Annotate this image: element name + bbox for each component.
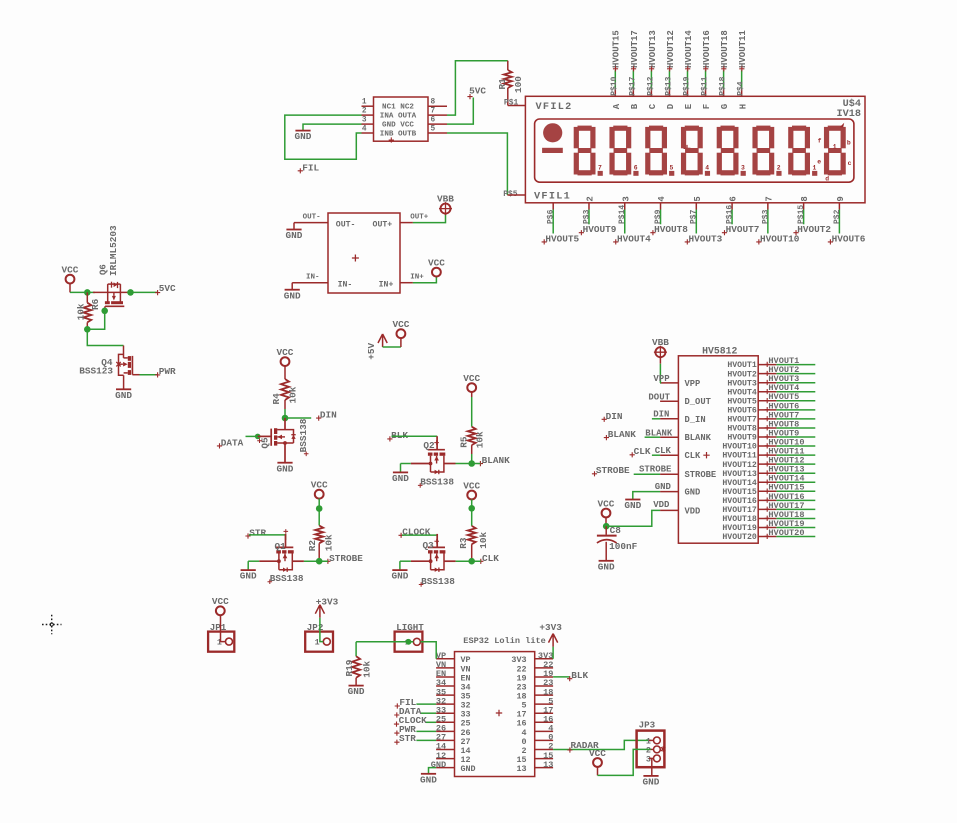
- svg-text:VFIL2: VFIL2: [536, 102, 573, 113]
- pin 8: [428, 105, 447, 107]
- wire Q3 drain to CLK junction: [456, 560, 481, 562]
- svg-text:5VC: 5VC: [159, 283, 176, 294]
- ground GND driver: [295, 130, 310, 132]
- svg-text:OUT+: OUT+: [373, 221, 393, 230]
- svg-text:HVOUT9: HVOUT9: [583, 224, 617, 235]
- wire JP3 pin3 to ground: [651, 758, 653, 776]
- svg-text:BSS138: BSS138: [298, 418, 309, 452]
- pin 6: [428, 123, 447, 125]
- supply VCC above R4: [281, 357, 290, 366]
- svg-text:HVOUT13: HVOUT13: [722, 470, 756, 479]
- svg-text:f: f: [818, 137, 822, 144]
- pin 2: [362, 114, 374, 116]
- svg-text:GND: GND: [286, 230, 303, 241]
- ground GND Q5: [277, 462, 292, 464]
- origin crosshair: [42, 615, 62, 635]
- supply VBB above HV5812: [655, 347, 665, 357]
- pin HVOUT1 wire and label: [758, 364, 776, 366]
- resistor R6 10k: [86, 292, 88, 302]
- wire Q2 drain to BLANK junction: [456, 463, 481, 465]
- ESP32 right pin 23: [535, 685, 553, 687]
- svg-text:4: 4: [362, 125, 367, 133]
- IC U2 HV5812: [678, 356, 758, 543]
- ESP32 left pin 32: [436, 703, 454, 705]
- svg-text:OUT+: OUT+: [410, 214, 429, 222]
- svg-text:c: c: [848, 160, 852, 167]
- pin 1: [362, 105, 374, 107]
- svg-text:D_OUT: D_OUT: [685, 397, 712, 407]
- svg-text:IRLML5203: IRLML5203: [108, 225, 119, 276]
- indicator dash segment: [542, 148, 563, 153]
- wire pin5 to display P$5: [447, 133, 507, 195]
- svg-text:GND: GND: [277, 463, 294, 474]
- indicator dot segment: [543, 123, 562, 142]
- svg-text:FIL: FIL: [302, 162, 319, 173]
- svg-text:P$19: P$19: [682, 76, 691, 95]
- wire pin6 to 5VC: [447, 98, 473, 125]
- ESP32 right pin 19: [535, 676, 553, 678]
- wire STR to Q1 gate: [249, 535, 286, 540]
- wire R6 bottom to Q4 drain: [87, 329, 123, 345]
- transistor Q6 IRLML5203 P-MOSFET: [93, 291, 131, 293]
- label PWR: [155, 372, 160, 377]
- svg-text:2: 2: [586, 196, 596, 201]
- JP3 pin 1: [654, 737, 661, 744]
- label DATA at ESP32: [394, 712, 399, 717]
- ESP32 left pin 35: [436, 694, 454, 696]
- svg-text:HVOUT5: HVOUT5: [545, 233, 579, 244]
- svg-text:VDD: VDD: [685, 506, 701, 516]
- wire R1 to display P$1: [508, 105, 526, 107]
- svg-text:F: F: [702, 104, 712, 109]
- wire ESP32 GND to ground: [429, 768, 437, 774]
- wire BLANK stub: [645, 436, 661, 438]
- pin D_OUT of HV5812: [660, 400, 678, 402]
- svg-text:IN+: IN+: [410, 274, 424, 282]
- svg-text:GND: GND: [348, 686, 365, 697]
- part origin cross U$4: [684, 145, 691, 152]
- svg-text:Q2: Q2: [423, 440, 435, 451]
- ESP32 right pin 4: [535, 730, 553, 732]
- wire net FIL pin2 loop: [285, 115, 362, 159]
- svg-text:NC1 NC2: NC1 NC2: [382, 104, 414, 112]
- svg-text:HVOUT7: HVOUT7: [727, 416, 757, 425]
- junction LIGHT pin: [406, 639, 412, 645]
- pin GND of HV5812: [660, 491, 678, 493]
- decimal point 7 with label 1: [812, 171, 817, 176]
- supply VBB: [441, 204, 451, 214]
- svg-text:ESP32 Lolin lite: ESP32 Lolin lite: [463, 636, 546, 646]
- svg-text:CLK: CLK: [634, 446, 651, 457]
- svg-text:GND: GND: [461, 764, 476, 774]
- svg-text:HVOUT3: HVOUT3: [727, 379, 757, 388]
- ground GND IN-: [285, 289, 300, 291]
- svg-text:13: 13: [516, 764, 526, 774]
- wire VCC to R2: [318, 499, 320, 509]
- svg-text:b: b: [847, 139, 851, 146]
- display digit 2: [613, 126, 627, 131]
- svg-text:Q1: Q1: [275, 541, 287, 552]
- ESP32 left pin 33: [436, 712, 454, 714]
- svg-text:GND: GND: [240, 571, 257, 582]
- supply +5V arrow: [378, 334, 387, 347]
- svg-text:HVOUT16: HVOUT16: [722, 497, 756, 506]
- svg-text:BLK: BLK: [391, 430, 408, 441]
- pin HVOUT19 wire and label: [758, 527, 776, 529]
- pin HVOUT7 wire and label: [758, 418, 776, 420]
- ESP32 left pin 27: [436, 739, 454, 741]
- label STR: [245, 533, 250, 538]
- wire pin7 to R1: [447, 61, 508, 115]
- label CLK net: [630, 452, 635, 457]
- wire STROBE stub: [634, 473, 660, 475]
- svg-text:INB OUTB: INB OUTB: [380, 131, 417, 139]
- pin 5: [428, 132, 447, 134]
- wire BLK: [553, 676, 569, 678]
- svg-text:HVOUT17: HVOUT17: [630, 30, 640, 68]
- wire pin3 to ground: [303, 124, 362, 131]
- label DATA: [217, 443, 222, 448]
- junction Q6 gate: [101, 308, 108, 315]
- ESP32 left pin 14: [436, 749, 454, 751]
- svg-text:8: 8: [431, 99, 436, 107]
- svg-text:GND: GND: [284, 290, 301, 301]
- svg-text:H: H: [738, 104, 748, 109]
- svg-text:HVOUT12: HVOUT12: [666, 30, 676, 68]
- svg-text:5VC: 5VC: [469, 86, 486, 97]
- svg-text:R6: R6: [90, 298, 101, 310]
- svg-text:P$13: P$13: [664, 76, 673, 95]
- display digit 5: [721, 126, 735, 131]
- pin HVOUT14 wire and label: [758, 481, 776, 483]
- svg-text:JP3: JP3: [639, 719, 656, 730]
- supply VCC above R2: [315, 490, 324, 499]
- svg-text:IN-: IN-: [338, 281, 353, 290]
- display digit 6: [756, 126, 770, 131]
- pin CLK of HV5812: [660, 454, 678, 456]
- label FIL: [298, 168, 303, 173]
- svg-text:HVOUT17: HVOUT17: [722, 506, 756, 515]
- pin HVOUT10 wire and label: [758, 445, 776, 447]
- junction BLANK: [468, 460, 475, 467]
- junction R4/DIN/Q5: [282, 415, 289, 422]
- svg-text:HVOUT11: HVOUT11: [722, 452, 756, 461]
- svg-text:4: 4: [657, 196, 667, 202]
- wire Q4 source to ground: [123, 375, 125, 389]
- junction Q6 drain: [127, 289, 134, 296]
- svg-text:HVOUT1: HVOUT1: [727, 361, 757, 370]
- svg-text:A: A: [612, 103, 622, 109]
- svg-text:P$6: P$6: [547, 209, 556, 224]
- svg-text:BLANK: BLANK: [608, 429, 637, 440]
- label DIN: [316, 416, 321, 421]
- svg-text:P$14: P$14: [618, 205, 627, 224]
- wire DIN stub: [652, 418, 660, 420]
- svg-text:+3V3: +3V3: [316, 596, 339, 607]
- ESP32 right pin 16: [535, 721, 553, 723]
- display digit 4: [685, 126, 699, 131]
- ground GND Q1: [241, 569, 256, 571]
- svg-text:HVOUT12: HVOUT12: [722, 461, 756, 470]
- resistor R1 100: [507, 61, 509, 70]
- svg-text:8: 8: [800, 196, 810, 201]
- svg-text:CLK: CLK: [482, 553, 499, 564]
- wire +5V to VCC: [383, 346, 401, 348]
- label PWR at ESP32: [394, 731, 399, 736]
- svg-text:HVOUT18: HVOUT18: [722, 515, 756, 524]
- svg-text:DIN: DIN: [606, 411, 623, 422]
- svg-text:GND: GND: [598, 561, 615, 572]
- ESP32 right pin 5: [535, 703, 553, 705]
- svg-text:GND VCC: GND VCC: [382, 122, 414, 130]
- svg-text:1: 1: [362, 99, 367, 107]
- svg-text:CLOCK: CLOCK: [402, 527, 431, 538]
- svg-text:HVOUT20: HVOUT20: [722, 533, 756, 542]
- wire Q1 drain to STROBE junction: [304, 560, 328, 562]
- svg-text:DATA: DATA: [221, 437, 244, 448]
- label CLK: [478, 559, 483, 564]
- svg-text:B: B: [630, 103, 640, 109]
- pin HVOUT13 wire and label: [758, 472, 776, 474]
- label STR at ESP32: [394, 740, 399, 745]
- svg-text:VFIL1: VFIL1: [534, 192, 571, 203]
- svg-text:VDD: VDD: [653, 500, 670, 510]
- ground GND C8: [599, 560, 614, 562]
- svg-text:VCC: VCC: [428, 258, 445, 269]
- svg-text:STROBE: STROBE: [596, 465, 630, 476]
- transistor Q4 BSS123: [123, 346, 125, 358]
- junction VCC/R6: [84, 289, 91, 296]
- svg-text:C8: C8: [610, 525, 622, 536]
- wire BLK to Q2 gate: [392, 435, 438, 437]
- wire Q6 drain to 5VC: [131, 291, 158, 293]
- resistor R19 10k: [355, 642, 357, 657]
- svg-text:BSS138: BSS138: [421, 576, 455, 587]
- wire VDD to VCC node: [606, 510, 660, 526]
- svg-text:1: 1: [315, 638, 320, 648]
- wire +3V3 to JP2 pin1: [320, 618, 323, 642]
- svg-text:6: 6: [634, 165, 638, 172]
- pin STROBE of HV5812: [660, 473, 678, 475]
- supply VCC at JP3: [593, 758, 602, 767]
- ESP32 left pin EN: [436, 676, 454, 678]
- ESP32 left pin 25: [436, 721, 454, 723]
- svg-text:10k: 10k: [75, 303, 86, 320]
- svg-text:VCC: VCC: [598, 498, 615, 509]
- ESP32 right pin 15: [535, 758, 553, 760]
- svg-text:HV5812: HV5812: [702, 346, 737, 357]
- decimal point 4 with label 4: [705, 171, 710, 176]
- supply VCC left: [66, 275, 75, 284]
- label BLANK: [478, 461, 483, 466]
- svg-text:INA OUTA: INA OUTA: [380, 113, 417, 121]
- pin D_IN of HV5812: [660, 418, 678, 420]
- svg-text:10k: 10k: [478, 531, 489, 548]
- svg-text:R2: R2: [307, 540, 318, 552]
- svg-text:VPP: VPP: [653, 374, 670, 384]
- svg-text:HVOUT14: HVOUT14: [722, 479, 756, 488]
- svg-text:+5V: +5V: [366, 343, 377, 360]
- svg-text:GND: GND: [115, 390, 132, 401]
- ESP32 right pin 18: [535, 694, 553, 696]
- svg-text:LIGHT: LIGHT: [396, 622, 424, 633]
- svg-text:GND: GND: [624, 500, 641, 511]
- svg-text:R3: R3: [458, 537, 469, 549]
- svg-text:GND: GND: [392, 473, 409, 484]
- svg-text:6: 6: [729, 196, 739, 201]
- svg-text:PWR: PWR: [159, 366, 176, 377]
- svg-text:BSS138: BSS138: [270, 573, 304, 584]
- pin HVOUT18 wire and label: [758, 517, 776, 519]
- ground GND R19: [349, 685, 364, 687]
- svg-text:HVOUT4: HVOUT4: [727, 388, 757, 397]
- ESP32 right pin 17: [535, 712, 553, 714]
- junction VCC R3: [468, 505, 475, 512]
- svg-text:10k: 10k: [287, 386, 298, 403]
- label BLK at ESP32: [567, 676, 572, 681]
- ESP32 right pin 0: [535, 739, 553, 741]
- svg-text:Q3: Q3: [423, 540, 435, 551]
- svg-text:BLANK: BLANK: [482, 455, 511, 466]
- ground GND ESP32: [421, 773, 436, 775]
- svg-text:10k: 10k: [361, 661, 372, 678]
- svg-text:P$2: P$2: [833, 209, 842, 224]
- connector JP3: [637, 731, 665, 768]
- svg-text:VCC: VCC: [589, 748, 606, 759]
- pin BLANK of HV5812: [660, 436, 678, 438]
- VFD display U$4 IV18 outline: [525, 96, 865, 203]
- label CLOCK: [399, 533, 404, 538]
- svg-text:STROBE: STROBE: [685, 470, 717, 480]
- svg-text:3: 3: [621, 196, 631, 201]
- svg-text:HVOUT4: HVOUT4: [617, 233, 651, 244]
- junction DATA gate: [255, 434, 261, 440]
- svg-text:GND: GND: [685, 488, 701, 498]
- wire FIL: [416, 703, 436, 705]
- pin HVOUT20 wire and label: [758, 536, 776, 538]
- svg-text:JP1: JP1: [210, 622, 227, 633]
- pin OUT+ wire to VBB: [400, 222, 413, 224]
- display digit 3: [649, 126, 663, 131]
- supply VCC at JP1: [216, 606, 225, 615]
- svg-text:BLK: BLK: [571, 670, 588, 681]
- connector JP2: [305, 632, 333, 652]
- svg-text:VCC: VCC: [311, 480, 328, 491]
- pin 4: [362, 132, 374, 134]
- svg-text:13: 13: [543, 760, 553, 770]
- svg-text:5: 5: [693, 196, 703, 201]
- svg-text:HVOUT14: HVOUT14: [684, 30, 694, 68]
- pin HVOUT8 wire and label: [758, 427, 776, 429]
- svg-text:3: 3: [362, 117, 367, 125]
- svg-text:P$11: P$11: [700, 76, 709, 95]
- ESP32 left pin GND: [436, 767, 454, 769]
- svg-text:STROBE: STROBE: [329, 553, 363, 564]
- svg-text:HVOUT13: HVOUT13: [648, 30, 658, 68]
- svg-text:2: 2: [362, 108, 367, 116]
- svg-text:VCC: VCC: [463, 480, 480, 491]
- wire RADAR to JP3 pin1: [553, 740, 651, 749]
- svg-text:2: 2: [777, 165, 781, 172]
- pin IN- wire to ground: [292, 282, 328, 284]
- wire VCC to JP1 pin1: [221, 616, 226, 642]
- wire gate node to R6 bottom: [87, 311, 104, 330]
- svg-text:BLANK: BLANK: [685, 433, 712, 443]
- svg-text:VBB: VBB: [652, 337, 669, 348]
- svg-text:GND: GND: [295, 131, 312, 142]
- wire CLK stub: [652, 454, 660, 456]
- junction STROBE: [316, 558, 323, 565]
- supply +3V3 at ESP32: [549, 634, 558, 647]
- svg-text:R19: R19: [344, 659, 355, 676]
- svg-text:HVOUT6: HVOUT6: [832, 233, 866, 244]
- ESP32 left pin 34: [436, 685, 454, 687]
- svg-text:DOUT: DOUT: [648, 392, 670, 402]
- supply VCC above R5: [467, 383, 476, 392]
- junction R6 bottom: [84, 326, 91, 333]
- junction CLK: [468, 558, 475, 565]
- ground GND Q2: [393, 471, 408, 473]
- wire STR: [416, 739, 436, 741]
- wire Q1 source to ground: [248, 560, 259, 562]
- svg-text:3: 3: [741, 165, 745, 172]
- svg-text:GND: GND: [420, 774, 437, 785]
- svg-text:P$9: P$9: [654, 209, 663, 224]
- pin HVOUT15 wire and label: [758, 490, 776, 492]
- svg-text:P$15: P$15: [797, 205, 806, 224]
- part origin cross HV5812: [703, 452, 709, 458]
- wire DIN: [285, 417, 311, 419]
- svg-text:C: C: [648, 103, 658, 109]
- svg-text:BSS138: BSS138: [420, 477, 454, 488]
- ESP32 right pin 2: [535, 749, 553, 751]
- svg-text:5: 5: [670, 165, 674, 172]
- svg-text:P$16: P$16: [725, 205, 734, 224]
- pin HVOUT16 wire and label: [758, 499, 776, 501]
- pin HVOUT12 wire and label: [758, 463, 776, 465]
- svg-text:100: 100: [513, 76, 524, 93]
- resistor R4 10k: [284, 366, 286, 379]
- svg-text:7: 7: [764, 196, 774, 201]
- svg-text:OUT-: OUT-: [336, 221, 356, 230]
- svg-text:GND: GND: [391, 571, 408, 582]
- supply VCC above R3: [467, 491, 476, 500]
- supply +3V3 at JP2: [315, 605, 324, 618]
- svg-text:10k: 10k: [323, 534, 334, 551]
- part origin cross ESP32: [496, 710, 502, 716]
- svg-text:100nF: 100nF: [609, 541, 638, 552]
- svg-text:9: 9: [836, 196, 846, 201]
- svg-text:HVOUT15: HVOUT15: [722, 488, 756, 497]
- svg-text:VCC: VCC: [392, 319, 409, 330]
- svg-text:HVOUT10: HVOUT10: [722, 443, 756, 452]
- pin HVOUT11 wire and label: [758, 454, 776, 456]
- svg-text:E: E: [684, 103, 694, 109]
- decimal point 2 with label 6: [633, 171, 638, 176]
- svg-text:P$12: P$12: [646, 76, 655, 95]
- wire Q4 gate to PWR: [132, 374, 139, 376]
- wire Q2 source to ground: [401, 463, 411, 465]
- resistor R3 10k: [471, 508, 473, 526]
- svg-text:GND: GND: [643, 777, 660, 788]
- pin VPP of HV5812: [660, 382, 678, 384]
- transistor Q1 BSS138: [259, 534, 304, 572]
- svg-text:VCC: VCC: [62, 265, 79, 276]
- decimal point 3 with label 5: [669, 171, 674, 176]
- svg-text:VBB: VBB: [437, 193, 454, 204]
- svg-text:HVOUT8: HVOUT8: [727, 425, 757, 434]
- svg-text:7: 7: [431, 108, 436, 116]
